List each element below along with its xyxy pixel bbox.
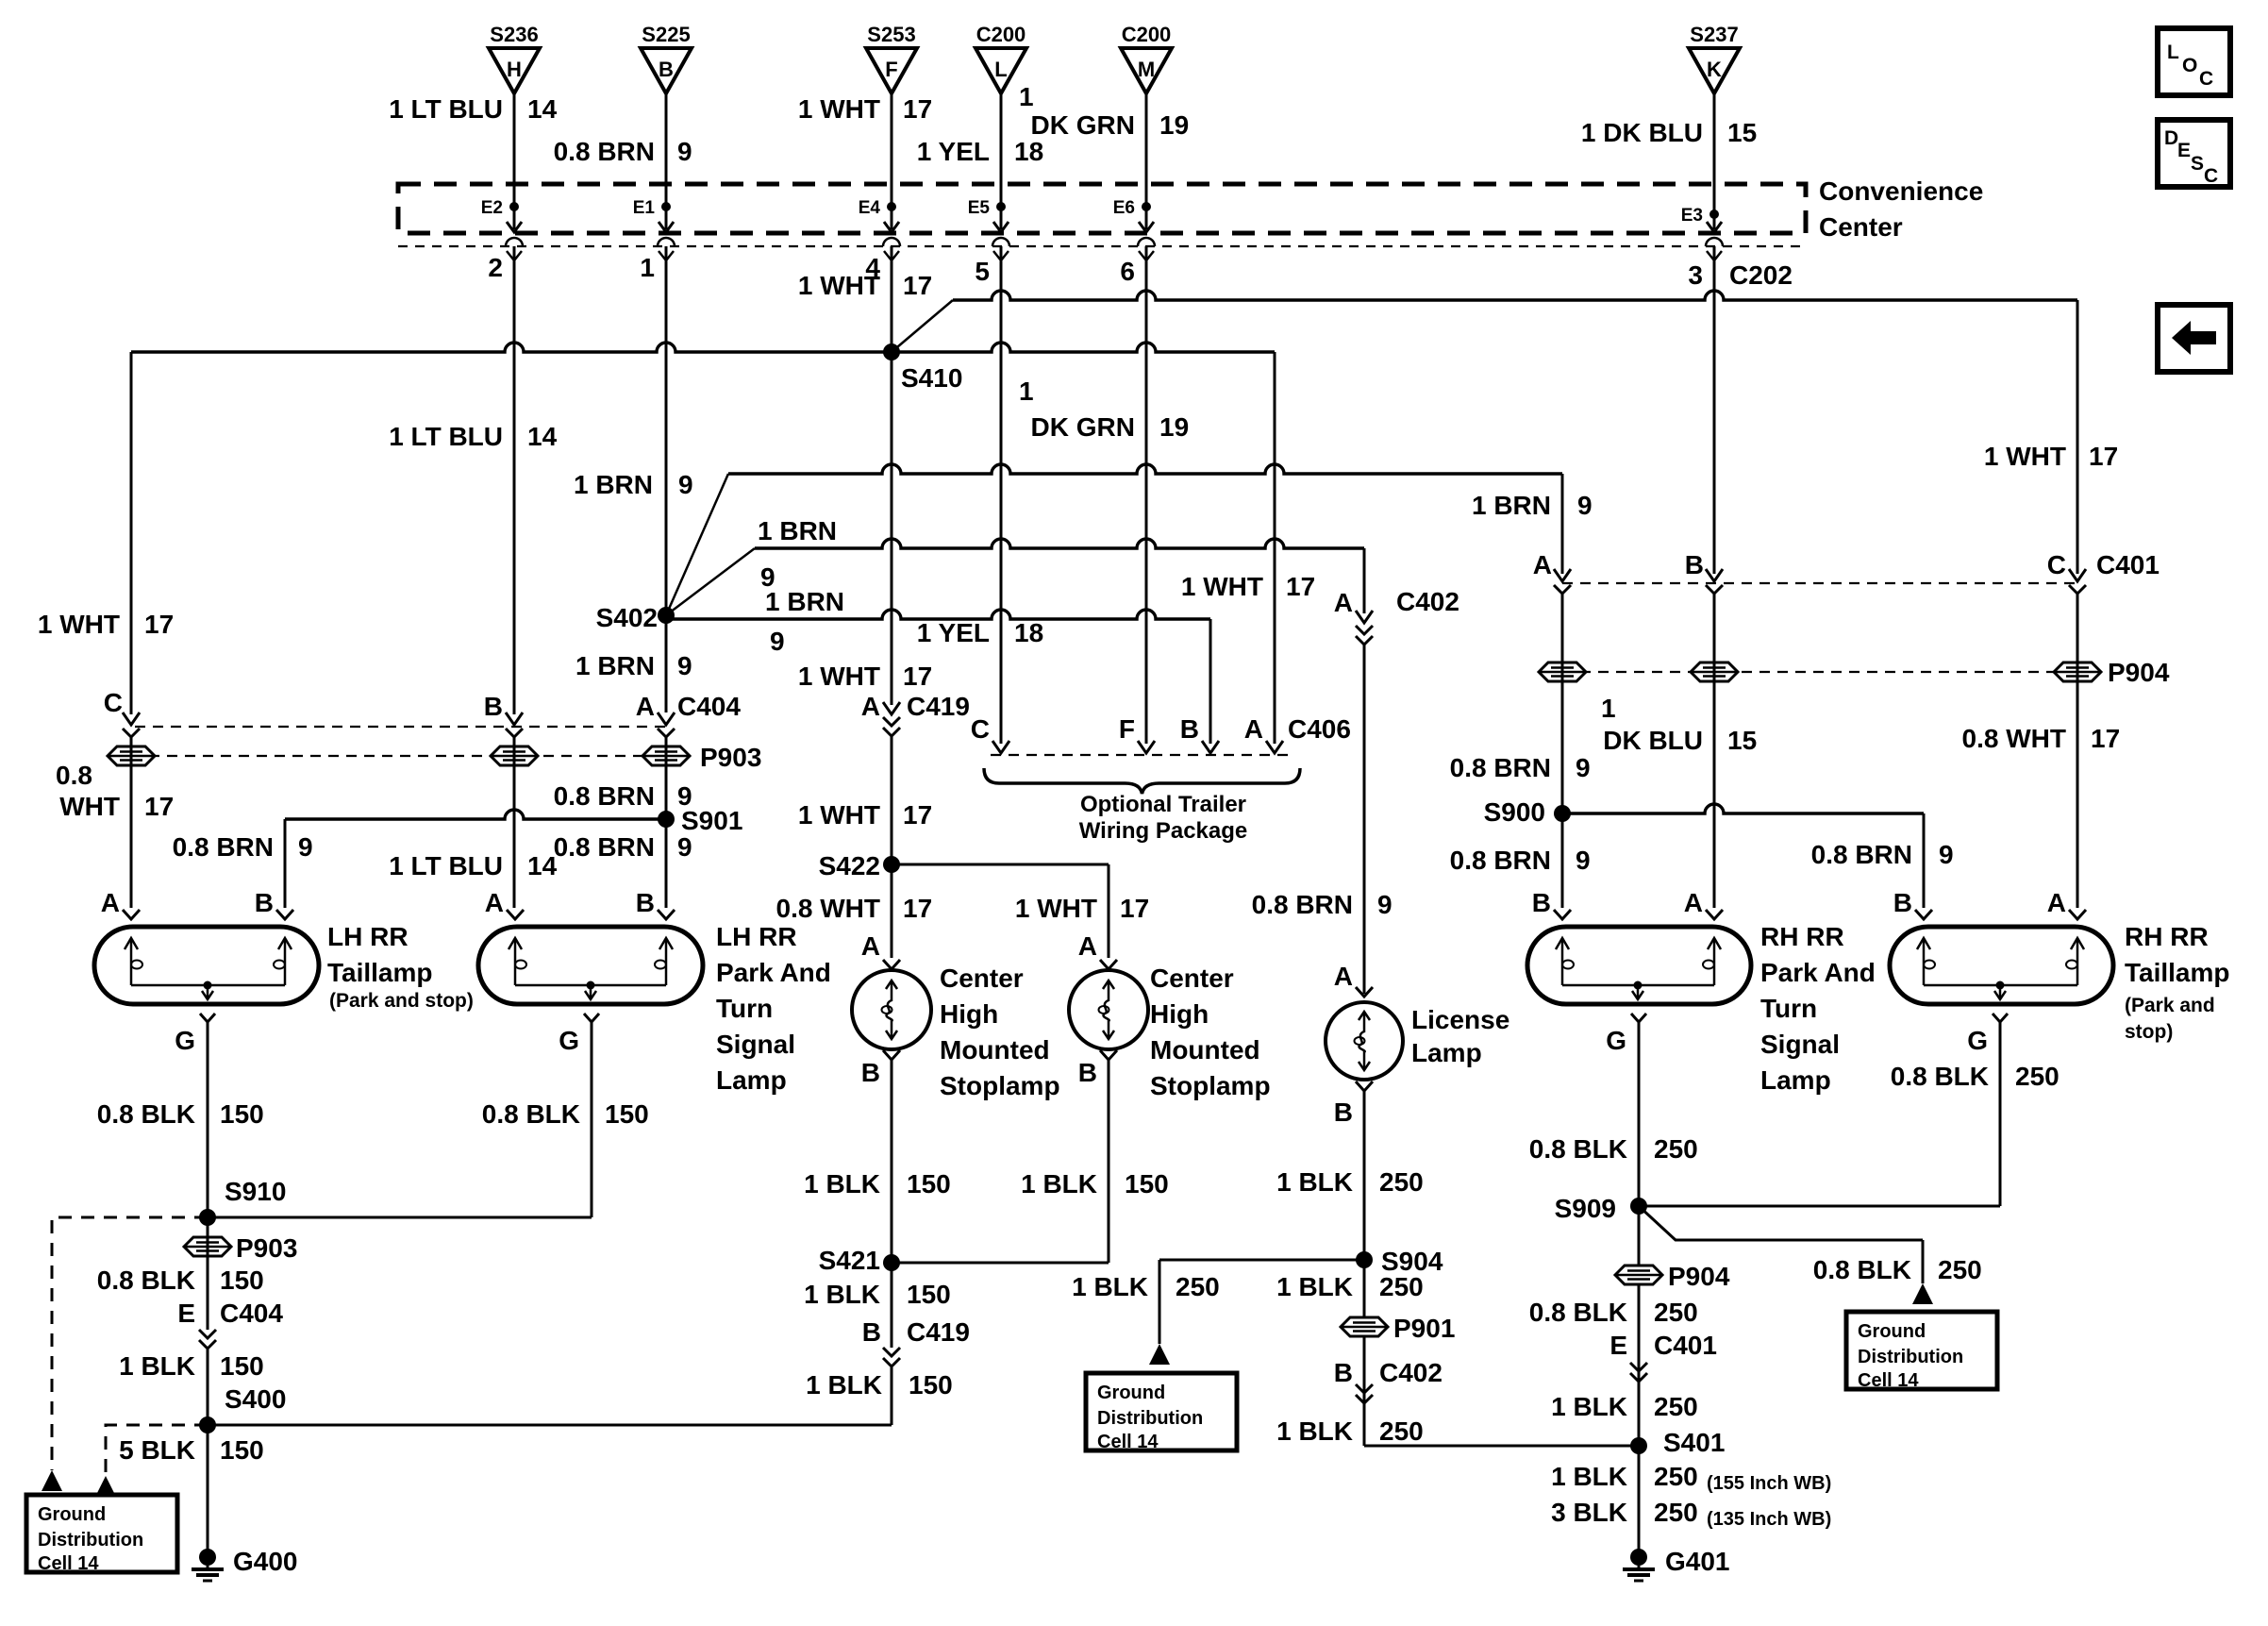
svg-text:1 BLK: 1 BLK	[1276, 1167, 1353, 1197]
pass-through P903 on ground wire	[184, 1233, 297, 1263]
label 0.8 BLK 250 below P904	[1529, 1298, 1698, 1327]
svg-text:E2: E2	[481, 198, 503, 218]
C202 bump and socket at wire E5	[992, 238, 1009, 260]
label 1 BLK 150 (stoplamp1)	[804, 1169, 951, 1199]
svg-text:(155 Inch WB): (155 Inch WB)	[1707, 1473, 1831, 1494]
svg-text:C404: C404	[220, 1299, 283, 1328]
P904 dashed line	[1562, 671, 2077, 673]
pin E4 of Convenience Center	[859, 198, 899, 232]
label 1 DK GRN 19 (circuit M)	[1019, 82, 1189, 140]
pin B of License Lamp	[1334, 1081, 1373, 1127]
svg-text:G: G	[1606, 1026, 1626, 1055]
label 1 BRN 9 (top branch)	[574, 470, 693, 499]
svg-text:E3: E3	[1681, 206, 1703, 226]
svg-text:0.8: 0.8	[56, 761, 92, 790]
label 1 BRN 9 below S402	[575, 651, 692, 680]
svg-text:B: B	[1334, 1098, 1353, 1127]
svg-text:B: B	[861, 1058, 880, 1087]
svg-text:S901: S901	[681, 806, 742, 835]
diagonal S402 to top BRN branch	[666, 474, 728, 615]
connector C404 pin E inline	[177, 1299, 283, 1349]
svg-text:DK GRN: DK GRN	[1031, 412, 1135, 442]
svg-text:L: L	[994, 58, 1007, 81]
C202 bump and socket at wire E2	[506, 238, 523, 260]
svg-text:B: B	[1532, 888, 1551, 917]
wire 1 BRN branch y=581 to license lamp	[755, 539, 1364, 548]
C401 pin A	[1533, 550, 1571, 594]
svg-text:1 WHT: 1 WHT	[798, 800, 880, 830]
svg-text:S422: S422	[819, 851, 880, 880]
svg-text:0.8 WHT: 0.8 WHT	[776, 894, 880, 923]
svg-text:0.8 BRN: 0.8 BRN	[1811, 840, 1912, 869]
svg-text:0.8 BRN: 0.8 BRN	[554, 137, 655, 166]
diagonal S402 to middle BRN branch	[666, 548, 755, 615]
svg-text:Mounted: Mounted	[1150, 1035, 1260, 1064]
wire stoplamp1 B down to S421	[891, 1060, 893, 1263]
svg-text:S900: S900	[1484, 797, 1545, 827]
wire S422 branch to 2nd stoplamp	[892, 864, 1109, 958]
svg-text:P903: P903	[236, 1233, 297, 1263]
wire down x=1656 to C401 pin A	[1561, 474, 1564, 574]
svg-text:Cell 14: Cell 14	[38, 1553, 99, 1574]
svg-text:0.8 BLK: 0.8 BLK	[1891, 1062, 1989, 1091]
brace Optional Trailer Wiring Package	[984, 768, 1300, 794]
pin E1 of Convenience Center	[633, 198, 674, 232]
label 0.8 BRN 9 (circuit B)	[554, 137, 692, 166]
box Ground Distribution Cell 14 (center)	[1086, 1373, 1237, 1452]
svg-text:1 WHT: 1 WHT	[1984, 442, 2066, 471]
svg-text:G: G	[175, 1026, 195, 1055]
wire C401-B down to RH park lamp A	[1713, 594, 1716, 908]
pin E2 of Convenience Center	[481, 198, 522, 232]
svg-text:B: B	[636, 888, 655, 917]
wire below C404-E to S400	[207, 1217, 209, 1555]
svg-text:9: 9	[1577, 491, 1593, 520]
label 1 BLK 150 below C419-B	[806, 1370, 953, 1400]
pin A of stoplamp 2	[1078, 931, 1117, 969]
connector C200 pin M (triangle)	[1121, 23, 1172, 93]
svg-text:1 BLK: 1 BLK	[804, 1169, 880, 1199]
C404 pin A	[636, 692, 742, 737]
dashed wire S400 to ground cell	[106, 1425, 208, 1476]
connector S225 pin B (triangle)	[641, 23, 692, 93]
svg-text:High: High	[940, 999, 998, 1029]
label 1 LT BLU 14 (lamp)	[389, 851, 557, 880]
wire 1 WHT bus y=318 to right side	[953, 291, 2077, 300]
C404 pin C	[104, 688, 140, 737]
label 1 WHT 17 (circuit F)	[798, 94, 932, 124]
svg-text:Cell 14: Cell 14	[1097, 1432, 1159, 1452]
svg-text:1 BRN: 1 BRN	[1472, 491, 1551, 520]
pin B of stoplamp 1	[861, 1050, 900, 1087]
label 5 BLK 150	[119, 1435, 264, 1465]
wire S900 branch to RH taillamp B	[1562, 804, 1924, 908]
svg-text:C200: C200	[1122, 23, 1172, 46]
svg-text:C200: C200	[976, 23, 1026, 46]
svg-text:14: 14	[527, 422, 558, 451]
svg-text:K: K	[1707, 58, 1722, 81]
svg-text:0.8 BLK: 0.8 BLK	[482, 1099, 580, 1129]
svg-text:A: A	[1533, 550, 1552, 579]
svg-text:Cell 14: Cell 14	[1858, 1370, 1919, 1391]
svg-text:C419: C419	[907, 1317, 970, 1347]
svg-text:17: 17	[2091, 724, 2120, 753]
svg-text:150: 150	[220, 1435, 264, 1465]
pass-through P904 on A wire	[1539, 662, 1586, 681]
label 0.8 BRN 9 (taillamp B)	[173, 832, 313, 862]
svg-text:9: 9	[677, 137, 692, 166]
svg-text:17: 17	[903, 94, 932, 124]
C202 bump and socket at wire E4	[883, 238, 900, 260]
legend LOC box	[2158, 28, 2230, 95]
svg-text:P904: P904	[1668, 1262, 1730, 1291]
svg-text:0.8 BRN: 0.8 BRN	[173, 832, 274, 862]
legend back-arrow box	[2158, 305, 2230, 372]
wire stoplamp2 B down to S421 branch	[892, 1060, 1109, 1263]
svg-text:9: 9	[677, 832, 692, 862]
svg-text:S410: S410	[901, 363, 962, 393]
splice S410	[883, 344, 962, 393]
wire from C200-L down into Convenience Center	[1000, 93, 1003, 217]
C202 bump and socket at wire E3	[1706, 238, 1723, 260]
svg-text:Distribution: Distribution	[38, 1530, 143, 1551]
svg-text:Distribution: Distribution	[1858, 1347, 1963, 1367]
label License Lamp	[1411, 1005, 1509, 1067]
svg-text:1 WHT: 1 WHT	[798, 94, 880, 124]
svg-text:A: A	[485, 888, 504, 917]
wire F (WHT) x=945 down to C419 pin A	[891, 246, 893, 705]
wire 1 BRN branch y=656 to trailer C406-B	[666, 610, 1210, 619]
svg-text:Wiring Package: Wiring Package	[1079, 818, 1248, 844]
svg-text:1 LT BLU: 1 LT BLU	[389, 94, 503, 124]
svg-text:0.8 BLK: 0.8 BLK	[97, 1266, 195, 1295]
svg-text:M: M	[1138, 58, 1155, 81]
svg-text:150: 150	[1125, 1169, 1169, 1199]
wire S901 branch to LH taillamp B	[285, 810, 666, 908]
svg-text:1 BRN: 1 BRN	[765, 587, 844, 616]
pin A of RH RR Park lamp	[1684, 888, 1723, 919]
wire down x=1446 to C402 pin A	[1363, 548, 1366, 613]
wire LH park G down and left to S910	[208, 1022, 592, 1217]
connector C202 dashed line	[398, 245, 1806, 247]
svg-text:1 BLK: 1 BLK	[1072, 1272, 1148, 1301]
splice S904	[1356, 1247, 1443, 1276]
svg-text:Center: Center	[1819, 212, 1903, 242]
wire F below C419 to stoplamp	[891, 734, 893, 958]
svg-text:17: 17	[903, 800, 932, 830]
svg-text:9: 9	[678, 470, 693, 499]
label 0.8 BRN 9 (license)	[1252, 890, 1392, 919]
wire S402 down to C404 pin A	[665, 615, 668, 712]
svg-text:1 BRN: 1 BRN	[575, 651, 655, 680]
pass-through P903 on H wire	[491, 746, 538, 765]
connector C419 pin B inline	[862, 1317, 970, 1366]
label 1 DK GRN 19 (second)	[1019, 377, 1189, 442]
wire license ground to S401	[1364, 1445, 1639, 1448]
svg-text:B: B	[1685, 550, 1704, 579]
svg-text:E4: E4	[859, 198, 881, 218]
pin A of LH RR Park lamp	[485, 888, 524, 919]
svg-text:Park And: Park And	[1760, 958, 1876, 987]
svg-text:License: License	[1411, 1005, 1509, 1034]
svg-text:S: S	[2191, 153, 2204, 175]
svg-text:1 BRN: 1 BRN	[574, 470, 653, 499]
svg-text:B: B	[862, 1317, 881, 1347]
dashed wire S910 to ground cell	[52, 1217, 208, 1470]
wire from C200-M down into Convenience Center	[1145, 93, 1148, 217]
svg-text:B: B	[1893, 888, 1912, 917]
label 1 BLK 250 above S401	[1551, 1392, 1698, 1421]
svg-text:1 YEL: 1 YEL	[917, 618, 990, 647]
connector S236 pin H (triangle)	[489, 23, 540, 93]
svg-text:LH RR: LH RR	[716, 922, 797, 951]
svg-text:18: 18	[1014, 618, 1043, 647]
wire S904 branch to ground cell	[1159, 1260, 1364, 1344]
svg-text:0.8 BRN: 0.8 BRN	[1450, 753, 1551, 782]
svg-text:15: 15	[1727, 118, 1757, 147]
connector C402 pin A inline	[1334, 587, 1459, 645]
svg-text:5 BLK: 5 BLK	[119, 1435, 195, 1465]
pin B of LH RR Taillamp	[255, 888, 293, 919]
label 1 BRN 9 (lower branch)	[765, 587, 844, 656]
label 0.8 BLK 150 (LH tail G)	[97, 1099, 264, 1129]
svg-text:250: 250	[2015, 1062, 2060, 1091]
lamp RH RR Taillamp	[1890, 927, 2113, 1004]
connector C401 pin E inline	[1609, 1331, 1717, 1382]
label 3 BLK 250 (135 Inch WB)	[1551, 1498, 1831, 1530]
svg-text:A: A	[1078, 931, 1097, 961]
label Optional Trailer Wiring Package	[1079, 792, 1248, 844]
label 1 YEL 18 (circuit L)	[917, 137, 1043, 166]
svg-text:1 DK BLU: 1 DK BLU	[1581, 118, 1703, 147]
C401 pin B	[1685, 550, 1723, 594]
label 1 BLK 250 (S904 branch)	[1072, 1272, 1220, 1301]
svg-text:B: B	[1180, 714, 1199, 744]
svg-text:9: 9	[1576, 846, 1591, 875]
svg-text:9: 9	[298, 832, 313, 862]
pin E5 of Convenience Center	[968, 198, 1009, 232]
svg-text:19: 19	[1159, 412, 1189, 442]
svg-text:Taillamp: Taillamp	[2125, 958, 2230, 987]
svg-text:150: 150	[220, 1351, 264, 1381]
label 0.8 BRN 9 above S900	[1450, 753, 1591, 782]
label 1 WHT 17 (2nd stoplamp)	[1015, 894, 1149, 923]
svg-text:9: 9	[1576, 753, 1591, 782]
svg-text:Park And: Park And	[716, 958, 831, 987]
svg-text:C202: C202	[1729, 260, 1793, 290]
svg-text:S401: S401	[1663, 1428, 1725, 1457]
svg-text:1 WHT: 1 WHT	[1015, 894, 1097, 923]
svg-text:C419: C419	[907, 692, 970, 721]
svg-text:F: F	[1119, 714, 1135, 744]
P903 dashed line	[131, 755, 666, 757]
lamp Center High Mounted Stoplamp 1	[852, 970, 931, 1049]
label 1 WHT 17 on C406-A wire	[1181, 572, 1315, 601]
pass-through P904 on ground wire	[1615, 1262, 1730, 1291]
ground destination triangle (S904 branch)	[1149, 1344, 1170, 1365]
label C202	[1729, 260, 1793, 290]
wire C404-C down to LH taillamp A	[130, 737, 133, 908]
svg-text:1 BLK: 1 BLK	[806, 1370, 882, 1400]
label LH RR Taillamp	[327, 922, 474, 1012]
svg-text:1 BRN: 1 BRN	[758, 516, 837, 545]
ground destination triangle (S909 branch)	[1912, 1283, 1933, 1304]
pass-through P901	[1341, 1314, 1455, 1343]
svg-text:Stoplamp: Stoplamp	[1150, 1071, 1271, 1100]
svg-text:A: A	[1334, 962, 1353, 991]
wire from S253-F down into Convenience Center	[891, 93, 893, 217]
svg-text:1 WHT: 1 WHT	[798, 662, 880, 691]
connector C419 pin A inline	[861, 692, 970, 736]
svg-text:Center: Center	[1150, 964, 1234, 993]
svg-text:A: A	[1334, 588, 1353, 617]
svg-text:(Park and stop): (Park and stop)	[329, 990, 474, 1012]
svg-text:Distribution: Distribution	[1097, 1408, 1203, 1429]
svg-text:Turn: Turn	[716, 994, 773, 1023]
svg-text:150: 150	[220, 1266, 264, 1295]
wire 1 WHT horizontal through S410 (y=373)	[131, 343, 1275, 352]
svg-text:E: E	[1609, 1331, 1627, 1360]
svg-text:Convenience: Convenience	[1819, 176, 1983, 206]
legend DESC box	[2158, 120, 2230, 187]
pin B of LH RR Park lamp	[636, 888, 675, 919]
svg-text:1 BLK: 1 BLK	[1551, 1392, 1627, 1421]
svg-text:9: 9	[677, 651, 692, 680]
label 1 WHT 17 below C419	[798, 800, 932, 830]
svg-text:250: 250	[1654, 1134, 1698, 1164]
svg-text:17: 17	[903, 271, 932, 300]
label RH RR Park And Turn Signal Lamp	[1760, 922, 1876, 1095]
wire H (LT BLU) x=545 down to C404 pin B	[513, 246, 516, 714]
splice S401	[1630, 1428, 1725, 1457]
svg-text:17: 17	[144, 610, 174, 639]
svg-text:Ground: Ground	[1097, 1383, 1165, 1403]
label 1 BRN 9 on C401-A wire	[1472, 491, 1593, 520]
svg-text:DK BLU: DK BLU	[1603, 726, 1703, 755]
svg-text:Lamp: Lamp	[716, 1065, 787, 1095]
pin A of RH RR Taillamp	[2047, 888, 2086, 919]
C406 pin C arrow	[971, 714, 1009, 753]
svg-text:P901: P901	[1393, 1314, 1455, 1343]
svg-text:250: 250	[1654, 1392, 1698, 1421]
label 0.8 BRN 9 above S901	[554, 781, 692, 811]
pin G of LH RR Taillamp	[175, 1014, 215, 1055]
label 0.8 BLK 250 (S909 branch)	[1813, 1255, 1982, 1284]
svg-text:D: D	[2164, 127, 2178, 149]
svg-text:Ground: Ground	[1858, 1321, 1926, 1342]
svg-text:Taillamp: Taillamp	[327, 958, 433, 987]
svg-text:3 BLK: 3 BLK	[1551, 1498, 1627, 1527]
label 1 WHT 17 above C419	[798, 662, 932, 691]
label 1 DK BLU 15 (circuit K)	[1581, 118, 1757, 147]
lamp Center High Mounted Stoplamp 2	[1069, 970, 1148, 1049]
label 1 BRN 9 (middle branch)	[758, 516, 837, 592]
svg-text:C: C	[2047, 550, 2066, 579]
svg-text:1: 1	[1019, 377, 1034, 406]
label 1 LT BLU 14 (circuit H)	[389, 94, 557, 124]
label 1 BLK 150 (stoplamp2)	[1021, 1169, 1169, 1199]
connector S237 pin K (triangle)	[1689, 23, 1740, 93]
wire C419-B down and left to S400	[207, 1263, 892, 1425]
svg-text:1 WHT: 1 WHT	[38, 610, 120, 639]
svg-text:B: B	[659, 58, 674, 81]
pin B of RH RR Park lamp	[1532, 888, 1571, 919]
svg-text:LH RR: LH RR	[327, 922, 409, 951]
svg-text:A: A	[861, 931, 880, 961]
label 1 LT BLU 14 (second)	[389, 422, 557, 451]
svg-text:G400: G400	[233, 1547, 298, 1576]
wire down x=1283 to C406 pin B	[1209, 619, 1212, 744]
connector S253 pin F (triangle)	[866, 23, 917, 93]
ground destination triangle (S400 dashed)	[95, 1476, 116, 1497]
svg-text:C: C	[2204, 165, 2218, 187]
svg-text:S421: S421	[819, 1246, 880, 1275]
svg-text:0.8 BRN: 0.8 BRN	[1252, 890, 1353, 919]
wire from S237-K down into Convenience Center	[1713, 93, 1716, 217]
svg-text:C401: C401	[2096, 550, 2160, 579]
svg-text:Mounted: Mounted	[940, 1035, 1050, 1064]
pin A of stoplamp 1	[861, 931, 900, 969]
svg-text:0.8 BRN: 0.8 BRN	[554, 832, 655, 862]
pin A of LH RR Taillamp	[101, 888, 140, 919]
svg-text:S253: S253	[867, 23, 915, 46]
lamp RH RR Park And Turn Signal Lamp	[1527, 927, 1751, 1004]
wire B (BRN) x=706 down to splice S402	[665, 246, 668, 615]
wire 0.8 BRN down to License Lamp	[1363, 643, 1366, 994]
wire C404-A down through S901	[665, 737, 668, 908]
pin G of LH RR Park lamp	[559, 1014, 599, 1055]
svg-text:A: A	[861, 692, 880, 721]
ground G400	[192, 1547, 298, 1581]
svg-text:A: A	[1684, 888, 1703, 917]
pin G of RH RR Park lamp	[1606, 1014, 1646, 1055]
svg-text:250: 250	[1654, 1462, 1698, 1491]
svg-text:RH RR: RH RR	[1760, 922, 1844, 951]
svg-text:250: 250	[1379, 1272, 1424, 1301]
wire down x=1351 to C406 pin A	[1274, 352, 1276, 744]
svg-text:C401: C401	[1654, 1331, 1717, 1360]
splice S402	[596, 603, 675, 632]
svg-text:5: 5	[975, 257, 990, 286]
label 0.8 WHT 17	[776, 894, 933, 923]
svg-text:S236: S236	[490, 23, 538, 46]
label 1 BLK 150 below S421	[804, 1280, 951, 1309]
wire S909 branch to ground cell	[1639, 1206, 1923, 1283]
svg-text:150: 150	[909, 1370, 953, 1400]
label 1 DK BLU 15 (lamp)	[1601, 694, 1757, 755]
label 0.8 BRN 9 below S900	[1450, 846, 1591, 875]
svg-text:DK GRN: DK GRN	[1031, 110, 1135, 140]
pin numbers of C202	[488, 253, 1703, 290]
svg-text:9: 9	[1377, 890, 1392, 919]
C406 pin F arrow	[1119, 714, 1155, 753]
svg-text:E1: E1	[633, 198, 656, 218]
svg-text:250: 250	[1654, 1298, 1698, 1327]
svg-text:1 BLK: 1 BLK	[1276, 1272, 1353, 1301]
svg-text:stop): stop)	[2125, 1021, 2173, 1043]
splice S900	[1484, 797, 1571, 827]
wire 1 BRN branch y=502 to right side	[728, 464, 1562, 474]
svg-text:1: 1	[1601, 694, 1616, 723]
label 0.8 WHT 17 (left)	[56, 761, 174, 821]
svg-text:250: 250	[1938, 1255, 1982, 1284]
svg-text:B: B	[1078, 1058, 1097, 1087]
svg-text:17: 17	[1286, 572, 1315, 601]
lamp License Lamp	[1326, 962, 1403, 1080]
label 1 BLK 250 above P901	[1276, 1272, 1424, 1301]
splice S910	[199, 1177, 286, 1226]
svg-text:250: 250	[1654, 1498, 1698, 1527]
